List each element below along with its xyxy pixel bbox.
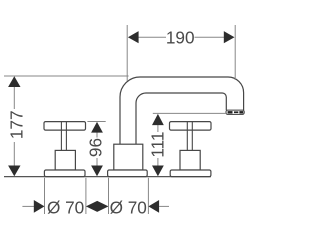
dim Ø70 left: extension lines — [44, 178, 46, 214]
dim 177: bottom arrow — [8, 166, 20, 177]
dim 111: bottom arrow — [152, 166, 164, 177]
dim 190: left extension line — [126, 25, 128, 81]
svg-text:177: 177 — [6, 110, 26, 139]
dim 177: vertical line segments — [13, 87, 15, 110]
spout aerator outlet — [226, 110, 244, 114]
spout outer contour — [120, 77, 244, 144]
svg-text:190: 190 — [166, 27, 195, 47]
spout base — [114, 144, 143, 170]
dim Ø70 middle diamond arrows — [86, 201, 109, 212]
spout inner contour — [136, 93, 226, 144]
dim 111: vertical line segments — [157, 125, 159, 133]
dim Ø70 right: extension lines — [108, 178, 110, 214]
svg-text:Ø 70: Ø 70 — [47, 197, 84, 217]
deck (counter) line — [4, 176, 211, 178]
dim 96: bottom arrow — [91, 166, 103, 177]
right handle bar — [170, 122, 212, 131]
dim 190: left arrow — [128, 31, 139, 43]
spout flange — [108, 170, 148, 177]
left handle base — [55, 150, 75, 170]
left handle flange — [44, 170, 85, 177]
dim Ø70 right: outside arrow and tail — [148, 200, 159, 213]
right handle base — [180, 150, 200, 170]
dim Ø70 left: outside arrow and tail — [22, 205, 34, 207]
dim 190: line segments — [138, 36, 166, 38]
svg-text:96: 96 — [86, 138, 106, 157]
dim 111: top arrow — [152, 114, 164, 125]
svg-text:111: 111 — [148, 132, 168, 158]
dim 96: extension line from handle top — [87, 121, 105, 123]
dim 96: vertical line segments — [96, 132, 98, 138]
dim 96: top arrow — [91, 122, 103, 133]
right handle stem — [187, 122, 192, 150]
dim 177: top arrow — [8, 76, 20, 87]
dim 190: right extension line — [234, 25, 236, 80]
dim 177: top extension line — [4, 75, 129, 77]
dim 190: right arrow — [224, 31, 235, 43]
right handle flange — [170, 170, 211, 177]
svg-text:Ø 70: Ø 70 — [110, 197, 147, 217]
left handle stem — [61, 122, 66, 150]
left handle bar — [44, 122, 86, 131]
dim 111: extension line from outlet — [153, 112, 226, 114]
